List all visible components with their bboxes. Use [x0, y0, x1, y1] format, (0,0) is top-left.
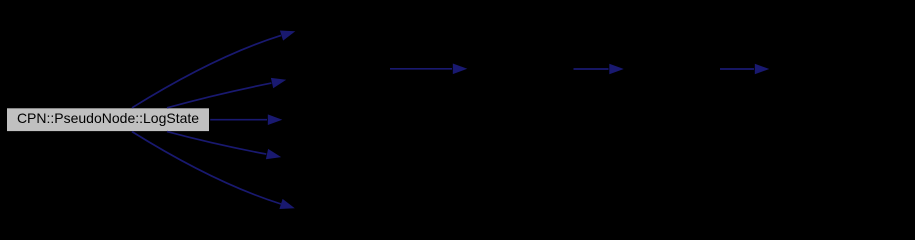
- svg-text:CPN::PseudoNode::LogState: CPN::PseudoNode::LogState: [17, 110, 199, 126]
